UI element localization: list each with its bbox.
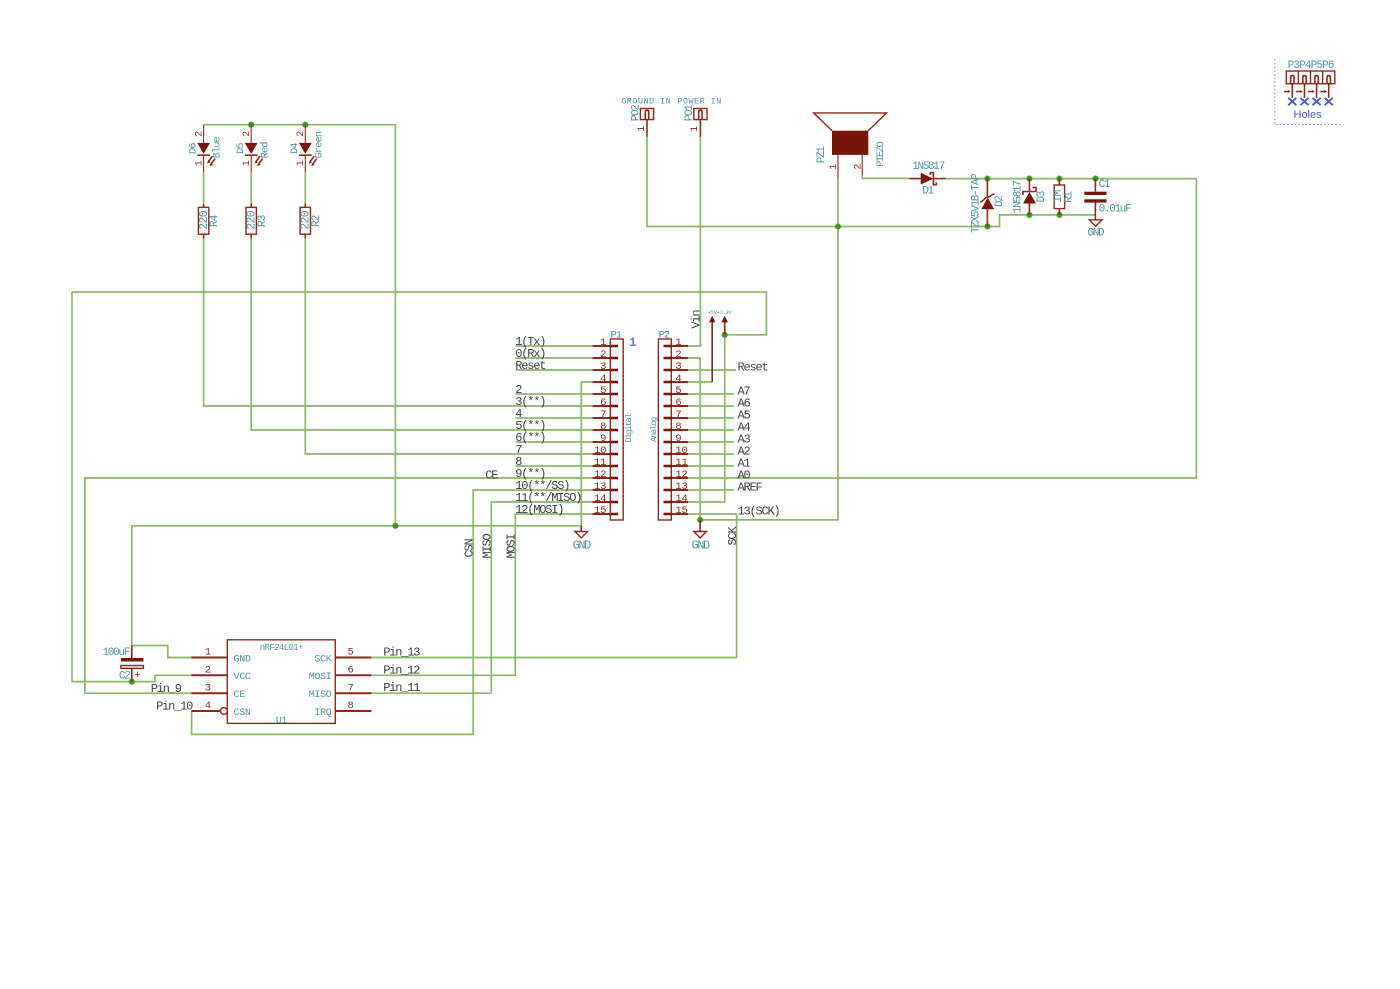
diode triangle [921,173,934,185]
zener diode D2 TZX5V1B-TAP [970,173,1006,233]
svg-text:R3: R3 [257,215,269,227]
svg-text:6: 6 [675,397,681,409]
svg-text:2: 2 [242,131,253,137]
svg-text:Reset: Reset [515,359,545,373]
wire net 4 stub [516,417,593,419]
wire +5V to P2 pin4 [688,381,712,383]
wire R2 to P1 pin10 [305,238,592,454]
pin line top [250,204,252,208]
svg-text:12(MOSI): 12(MOSI) [515,503,563,517]
junction dot [1092,176,1098,182]
svg-text:10: 10 [675,445,687,457]
junction dot [722,332,728,338]
hole pin P6 socket stub [1327,76,1330,84]
svg-text:13: 13 [594,481,606,493]
svg-text:PO1: PO1 [684,104,696,122]
wire D5 cathode to R3 [250,172,252,203]
holes block P3P4P5P6 [1275,59,1341,124]
svg-text:VCC: VCC [234,672,251,683]
pin line top [304,204,306,208]
pin 15 stub [664,513,672,516]
svg-text:1: 1 [675,337,681,349]
wire MOSI net P1 pin15 to U1 [371,514,592,675]
pin 4 line [671,381,688,383]
hole pin P3 X mark [1288,98,1296,105]
cathode bar [197,154,210,156]
module body [227,640,335,724]
resistor body [1054,185,1064,209]
pin line bottom [304,234,306,238]
svg-text:CE: CE [234,690,246,701]
pin 11 stub [664,465,672,468]
svg-text:CSN: CSN [462,538,476,557]
hole pin P3 lead [1291,84,1293,98]
schottky cathode bar [930,173,936,185]
svg-text:+5V+3.3V: +5V+3.3V [708,310,732,316]
svg-text:0.01uF: 0.01uF [1099,203,1132,215]
power symbol +5V [709,316,716,382]
ground symbol at P2 [691,520,710,553]
wire GROUND IN rail [647,137,987,227]
junction dot [248,122,254,128]
piezo PZ1 [814,113,888,178]
pin 2 line [671,357,688,359]
schottky cathode bar [1023,187,1036,195]
LED triangle [245,143,258,154]
cathode pin line [1028,179,1030,191]
wire net A0 to diode rail [688,179,1196,478]
junction dot [1056,176,1062,182]
svg-text:D1: D1 [922,186,934,198]
junction dot [697,517,703,523]
header divider [1297,71,1299,84]
svg-text:Red: Red [259,142,271,159]
svg-text:Vin: Vin [690,310,704,329]
svg-text:P1: P1 [611,330,622,342]
hole pin P4 lead [1304,84,1306,98]
svg-text:14: 14 [594,493,606,505]
junction dot [129,679,135,685]
wire P1 pin4 to GND [581,382,592,526]
svg-text:GND: GND [1087,228,1105,240]
svg-text:8: 8 [348,700,354,712]
pin 14 stub [664,501,672,504]
emission arrows [207,156,215,166]
svg-text:D2: D2 [994,196,1006,207]
wire net Reset stub P1 [516,369,593,371]
svg-text:Analog: Analog [649,417,659,442]
pin line bottom [1094,203,1096,220]
ground symbol at P1 [573,526,592,553]
horn outline [814,113,887,131]
svg-text:P3P4P5P6: P3P4P5P6 [1288,60,1334,72]
cathode bar [299,154,312,156]
wire net A6 [688,405,734,407]
header body [1286,71,1335,84]
pin 9 stub [664,441,672,444]
resistor body [300,207,310,234]
pin 3 line [671,369,688,371]
svg-text:GND: GND [573,538,592,552]
pin 5 stub [610,393,618,396]
pin 10 stub [610,453,618,456]
svg-text:PO2: PO2 [631,105,643,122]
svg-text:2: 2 [205,665,211,677]
svg-text:GROUND IN: GROUND IN [621,97,671,107]
svg-text:GND: GND [691,538,710,552]
plate 1 [1084,192,1106,195]
pin 2 line [203,125,205,143]
wire net A7 [688,393,734,395]
svg-text:Pin_13: Pin_13 [383,646,420,660]
svg-text:13: 13 [675,481,687,493]
wire net 6 stub [516,441,593,443]
junction dot [1056,212,1062,218]
pin 14 line [671,501,688,503]
pin 4 line [191,710,220,712]
svg-text:D4: D4 [289,143,301,154]
wire net A3 [688,441,734,443]
diode D3 1N5817 [1012,179,1048,215]
pin 4 stub [610,381,618,384]
hole pin P4 tick [1296,91,1300,93]
pin 13 stub [664,489,672,492]
svg-text:9: 9 [675,433,681,445]
svg-text:R4: R4 [209,214,221,227]
wire net A5 [688,417,734,419]
svg-text:MISO: MISO [309,690,332,701]
wire piezo pin1 down [837,178,839,226]
svg-text:Pin_10: Pin_10 [156,700,193,714]
svg-text:3: 3 [600,361,606,373]
junction dot [392,523,398,529]
pin line top [1094,179,1096,192]
pin 8 line [593,429,611,431]
svg-text:Reset: Reset [738,361,768,375]
svg-text:5: 5 [675,385,681,397]
pin line bottom [131,668,133,681]
wire CSN net P1 pin13 to U1 [192,490,593,734]
svg-text:12: 12 [675,469,687,481]
zener triangle [981,198,994,210]
hole pin P5 socket stub [1315,76,1318,84]
pin 2 line [191,674,227,676]
svg-text:1N5817: 1N5817 [1012,181,1024,214]
connector P2 Analog [649,330,688,520]
pin 5 line [671,393,688,395]
cathode bar [245,154,258,156]
pin 7 stub [664,417,672,420]
wire GND horizontal to P1 pin4 [132,526,582,658]
pin 10 line [671,453,688,455]
svg-text:2: 2 [194,131,205,137]
resistor body [246,207,256,234]
cathode pin line [933,178,945,180]
pin 13 line [593,489,611,491]
svg-text:11: 11 [675,457,687,469]
wire net AREF [688,489,734,491]
svg-text:PZ1: PZ1 [816,146,828,164]
pin 6 line [593,405,611,407]
diode triangle [1023,192,1036,204]
pin 5 line [593,393,611,395]
pin 10 line [593,453,611,455]
module U1 nRF24L01+ [191,640,371,727]
svg-text:1: 1 [242,160,253,166]
power symbol +3.3V [721,316,728,335]
svg-text:Digital: Digital [624,413,634,442]
LED D5 (Red) [235,125,271,173]
svg-text:4: 4 [205,700,211,712]
emission arrows [309,156,317,166]
pin 1 line [837,155,839,179]
wire P2 pin2 to GND and piezo pin1 [688,227,838,520]
header body [640,109,653,120]
svg-text:6: 6 [600,397,606,409]
resistor R1 1M [1052,179,1075,215]
svg-text:P2: P2 [659,330,670,342]
svg-text:13(SCK): 13(SCK) [738,505,780,519]
wire net A4 [688,429,734,431]
junction dot [984,223,990,229]
socket stub [699,110,702,119]
svg-text:MOSI: MOSI [309,672,332,683]
pin line top [131,646,133,659]
wire R3 to P1 pin8 [251,238,592,430]
wire +V long horizontal [72,292,766,335]
junction dot [835,223,841,229]
svg-text:Holes: Holes [1294,109,1323,121]
pin 1 stub [610,345,618,348]
junction dot [1026,176,1032,182]
svg-text:C1: C1 [1099,179,1111,191]
pin 1 line [699,120,701,137]
svg-text:PIEZO: PIEZO [875,141,887,166]
pin 12 line [671,477,688,479]
wire MISO net P1 pin14 to U1 [371,502,592,693]
svg-text:nRF24L01+: nRF24L01+ [260,643,303,653]
dashed frame [1275,59,1341,124]
header divider [1322,71,1324,84]
pin line bottom [203,234,205,238]
pin 15 line [671,513,688,515]
connector P1 Digital [593,330,634,520]
pin 1 line [203,155,205,172]
hole pin P5 lead [1316,84,1318,98]
wire VCC rail to C2 and U1 [72,292,191,682]
wire SCK net P2 pin15 to U1 [371,514,736,658]
wire D6 cathode to R4 [203,172,205,203]
junction dot [1026,212,1032,218]
svg-text:2: 2 [853,164,864,170]
svg-text:CSN: CSN [234,708,251,719]
wire R4 to P1 pin6 [204,238,593,406]
svg-text:1: 1 [690,126,701,132]
resistor body [198,207,208,234]
pin 1 stub [664,345,672,348]
junction dot [984,176,990,182]
hole pin P4 socket stub [1303,76,1306,84]
svg-text:CE: CE [485,468,498,482]
connector body [658,339,671,520]
pin 1 line [646,120,648,137]
svg-text:9: 9 [600,433,606,445]
anode pin line [986,209,988,226]
hole pin P3 tick [1284,91,1288,93]
svg-text:MOSI: MOSI [504,534,518,558]
pin line top [203,204,205,208]
svg-text:SCK: SCK [726,526,740,546]
svg-text:GND: GND [234,654,251,665]
svg-text:Pin_12: Pin_12 [383,663,420,677]
svg-text:1: 1 [600,337,606,349]
pin 6 line [671,405,688,407]
pin 2 stub [664,357,672,360]
svg-text:100uF: 100uF [102,647,129,659]
plate 2 [121,666,143,669]
wire net 1(Tx) stub [516,345,593,347]
svg-text:1: 1 [205,647,211,659]
header divider [1310,71,1312,84]
anode pin line [1028,204,1030,215]
pin 3 stub [610,369,618,372]
pin 14 stub [610,501,618,504]
pin 8 line [671,429,688,431]
pin 15 stub [610,513,618,516]
pin 12 line [593,477,611,479]
svg-text:+: + [134,670,141,682]
svg-text:D3: D3 [1036,191,1048,202]
wire piezo pin2 to D1 [862,176,909,179]
pin 7 line [593,417,611,419]
header PO2 GROUND IN [621,97,671,137]
svg-text:Pin_9: Pin_9 [151,682,182,696]
hole pin P5 tick [1308,91,1312,93]
svg-text:R1: R1 [1063,191,1075,203]
svg-text:D6: D6 [187,143,199,154]
wire D4 cathode to R2 [304,172,306,203]
pin 1 line [191,657,227,659]
pin 1 line [304,155,306,172]
piezo body [832,131,868,155]
pin 2 stub [610,357,618,360]
inversion bubble [221,708,228,715]
svg-text:1: 1 [637,126,648,132]
svg-text:Blue: Blue [212,136,224,158]
pin 8 line [335,710,371,712]
pin 6 stub [664,405,672,408]
svg-text:TZX5V1B-TAP: TZX5V1B-TAP [970,173,982,233]
svg-text:IRQ: IRQ [314,708,331,719]
wire net 2 stub [516,393,593,395]
pin 2 line [250,125,252,143]
pin line top [1058,179,1060,185]
wire net Reset P2 pin3 [688,369,736,371]
LED triangle [197,143,210,154]
pin 11 line [671,465,688,467]
wire diode chain top rail [946,178,1197,180]
pin 5 stub [664,393,672,396]
pin 12 stub [610,477,618,480]
svg-text:3: 3 [205,682,211,694]
pin 4 stub [664,381,672,384]
pin 4 line [593,381,611,383]
pin 7 line [671,417,688,419]
pin 7 line [335,692,371,694]
wire +3.3V to P2 pin14 [688,335,725,502]
pin 6 stub [610,405,618,408]
zener bar [980,194,994,202]
capacitor C1 0.01uF [1084,179,1131,220]
svg-text:2: 2 [296,131,307,137]
wire net A2 [688,453,734,455]
pin 1 line [593,345,611,347]
emission arrows [255,156,263,166]
wire net 8 stub [516,465,593,467]
pin 9 line [671,441,688,443]
svg-text:MISO: MISO [481,533,495,558]
wire net 0(Rx) stub [516,357,593,359]
svg-text:15: 15 [594,505,606,517]
header body [694,109,707,120]
LED D6 (Blue) [187,125,223,173]
hole pin P6 lead [1328,84,1330,98]
ground symbol at C1 [1087,220,1105,240]
plate 1 [121,658,143,662]
wire POWER IN to P2 pin1 [688,137,700,346]
pin 11 line [593,465,611,467]
LED triangle [299,143,312,154]
svg-text:C2: C2 [119,670,130,682]
svg-text:1: 1 [629,335,637,350]
svg-text:2: 2 [600,349,606,361]
svg-text:12: 12 [594,469,606,481]
pin 2 line [304,125,306,143]
svg-text:1: 1 [296,160,307,166]
pin 9 stub [610,441,618,444]
svg-text:Green: Green [313,131,325,158]
svg-text:4: 4 [600,373,606,385]
pin 3 stub [664,369,672,372]
svg-text:3: 3 [675,361,681,373]
svg-text:5: 5 [600,385,606,397]
svg-text:1: 1 [829,164,840,170]
pin 1 line [671,345,688,347]
svg-text:POWER IN: POWER IN [677,97,721,107]
junction dot [302,122,308,128]
svg-text:1: 1 [194,160,205,166]
pin 6 line [335,674,371,676]
svg-text:7: 7 [348,682,354,694]
hole pin P3 socket stub [1291,76,1294,84]
pin 3 line [593,369,611,371]
capacitor C2 100uF [102,646,143,683]
hole pin P6 tick [1320,91,1324,93]
pin 2 line [593,357,611,359]
header PO1 POWER IN [677,97,721,137]
wire CE net P1 pin12 to U1 [85,478,593,693]
svg-text:15: 15 [675,505,687,517]
svg-text:7: 7 [675,409,681,421]
pin 10 stub [664,453,672,456]
svg-text:SCK: SCK [314,654,331,665]
socket stub [645,110,648,119]
svg-text:8: 8 [675,421,681,433]
pin 13 line [671,489,688,491]
wire LED anode rail [204,125,396,526]
svg-text:7: 7 [600,409,606,421]
pin 8 stub [664,429,672,432]
